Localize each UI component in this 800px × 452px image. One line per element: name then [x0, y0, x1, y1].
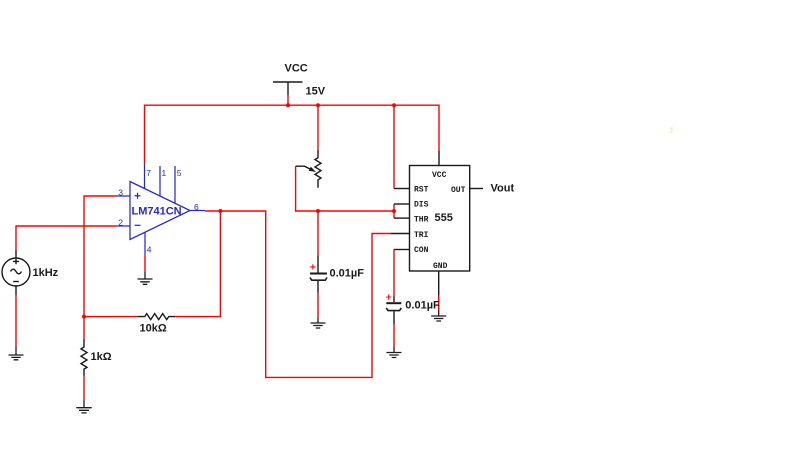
- svg-text:THR: THR: [414, 215, 429, 224]
- svg-text:0.01µF: 0.01µF: [330, 268, 365, 280]
- svg-text:6: 6: [194, 202, 199, 212]
- svg-text:15V: 15V: [306, 86, 326, 98]
- svg-text:DIS: DIS: [414, 201, 429, 210]
- svg-text:0.01µF: 0.01µF: [405, 300, 440, 312]
- svg-text:OUT: OUT: [451, 186, 466, 195]
- svg-text:LM741CN: LM741CN: [132, 206, 182, 218]
- svg-text:7: 7: [146, 168, 151, 178]
- svg-text:1kΩ: 1kΩ: [91, 351, 112, 363]
- svg-text:RST: RST: [414, 185, 429, 194]
- svg-text:10kΩ: 10kΩ: [140, 323, 167, 335]
- svg-text:3: 3: [118, 187, 123, 197]
- svg-text:2: 2: [118, 218, 123, 228]
- svg-text:VCC: VCC: [285, 63, 308, 75]
- svg-text:1kHz: 1kHz: [33, 267, 59, 279]
- svg-text:Vout: Vout: [491, 183, 515, 195]
- svg-text:1: 1: [162, 168, 167, 178]
- svg-text:5: 5: [177, 168, 182, 178]
- svg-text:CON: CON: [414, 246, 429, 255]
- svg-text:TRI: TRI: [414, 231, 429, 240]
- svg-text:GND: GND: [433, 262, 448, 271]
- svg-text:4: 4: [147, 245, 152, 255]
- svg-text:VCC: VCC: [432, 171, 447, 180]
- svg-text:555: 555: [435, 212, 453, 224]
